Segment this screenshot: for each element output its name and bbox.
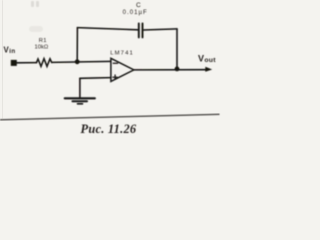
page rule above caption (document element)	[0, 114, 220, 120]
svg-text:Рис. 11.26: Рис. 11.26	[81, 122, 137, 136]
svg-text:R1: R1	[39, 38, 47, 44]
wire input to resistor	[17, 62, 37, 64]
svg-text:Vin: Vin	[4, 46, 16, 55]
faint scan smudge top left	[31, 1, 39, 7]
node output junction	[175, 67, 180, 72]
svg-text:LM741: LM741	[110, 51, 134, 57]
node A junction of R1, C and op-amp input	[75, 59, 80, 64]
wire resistor to op-amp inverting input	[52, 61, 111, 62]
faint page left edge line	[1, 0, 3, 119]
wire capacitor to right corner	[143, 29, 177, 30]
op-amp inverting pin mark	[113, 62, 117, 64]
svg-text:Vout: Vout	[198, 54, 216, 64]
wire top left to capacitor	[77, 28, 138, 30]
capacitor C	[139, 23, 143, 37]
op-amp U1	[111, 58, 134, 81]
resistor R1	[37, 59, 52, 67]
svg-text:0.01µF: 0.01µF	[123, 10, 148, 16]
terminal Vout arrow	[205, 67, 212, 72]
wire down to ground	[79, 78, 81, 97]
wire right vertical down to output	[176, 29, 178, 69]
svg-text:10kΩ: 10kΩ	[35, 45, 49, 51]
op-amp noninverting pin mark	[113, 75, 117, 79]
svg-text:C: C	[136, 2, 141, 9]
wire op-amp output to Vout	[134, 69, 206, 71]
wire junction up to capacitor branch	[76, 28, 78, 62]
input terminal Vin	[11, 60, 17, 66]
ground	[65, 98, 95, 104]
faint scan smudge left of R1	[29, 26, 43, 32]
wire noninverting input stub	[80, 77, 111, 80]
